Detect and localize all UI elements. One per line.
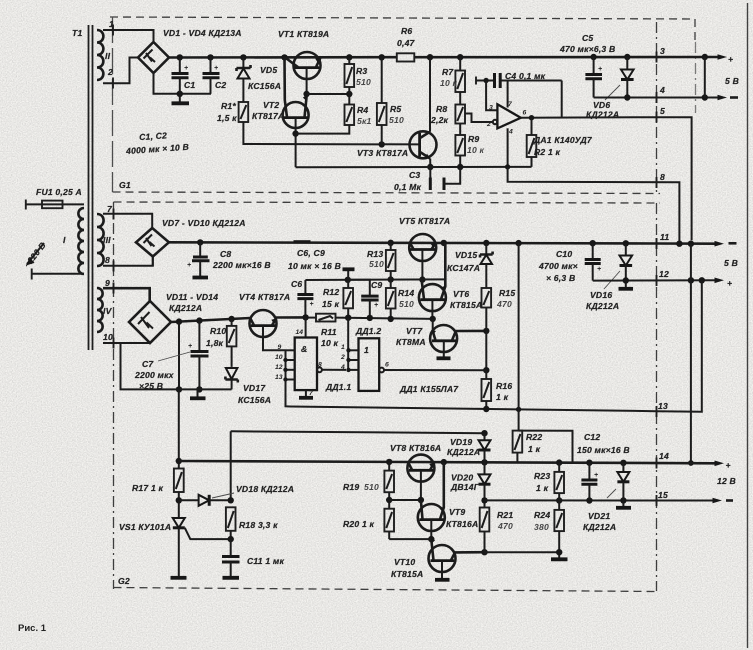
resistor R8 [430, 92, 465, 125]
wire drop from winding-10 wire to lower common [121, 343, 128, 389]
capacitor C7 [188, 321, 209, 390]
svg-text:× 6,3 В: × 6,3 В [546, 273, 575, 283]
DD1.2 input pins [340, 318, 359, 372]
svg-text:12: 12 [275, 364, 283, 371]
terminal 14 [657, 451, 669, 469]
node R2 top [529, 115, 534, 120]
wire vertical A term5 net [690, 244, 692, 463]
winding II [97, 30, 111, 80]
svg-text:КС156А: КС156А [238, 395, 271, 405]
leader C7 [158, 352, 190, 361]
box G1 top border [110, 17, 695, 19]
svg-text:10 к: 10 к [440, 78, 458, 88]
svg-text:470: 470 [496, 299, 512, 309]
svg-text:11: 11 [660, 232, 669, 242]
resistor R18 [226, 507, 278, 539]
svg-text:II: II [105, 51, 111, 61]
op-amp DA1 [486, 101, 527, 136]
chassis bar above C9 riser [343, 269, 355, 280]
svg-text:8: 8 [660, 172, 665, 182]
DD1.2 output pin6 [379, 362, 486, 373]
svg-text:Рис. 1: Рис. 1 [18, 623, 47, 634]
svg-text:С8: С8 [220, 249, 231, 259]
node R9 bottom [457, 164, 463, 170]
svg-text:VD11 - VD14: VD11 - VD14 [166, 292, 218, 302]
diode VD21 [616, 463, 631, 508]
wire middle rail y241 [169, 242, 657, 243]
resistor R5 [377, 57, 404, 144]
svg-text:R16: R16 [496, 381, 512, 391]
svg-text:VT2: VT2 [263, 100, 279, 110]
wire winding II bottom to bridge left [103, 58, 138, 84]
svg-text:С3: С3 [409, 170, 420, 180]
node C4 left / pin3 riser [483, 78, 488, 83]
svg-text:VD17: VD17 [243, 383, 266, 393]
node bus-R10 [228, 316, 234, 322]
capacitor C8 [187, 242, 210, 277]
svg-text:КТ817А: КТ817А [252, 111, 284, 121]
resistor R12 [322, 280, 353, 318]
svg-text:VD5: VD5 [260, 65, 277, 75]
node R15 bottom / VT7 [483, 328, 489, 334]
svg-text:2: 2 [107, 67, 113, 77]
wire R20 bottom to VT9 base [389, 538, 431, 540]
svg-text:+: + [374, 302, 378, 309]
svg-text:R15: R15 [499, 288, 515, 298]
node rail-VT1/VT2 collectors [281, 54, 287, 60]
ground below C1 [172, 94, 190, 104]
svg-text:14: 14 [659, 451, 669, 461]
node 14rail-R19 [386, 459, 392, 465]
resistor R13 [367, 243, 396, 280]
wire VT3 collector to rail [429, 57, 431, 132]
transistor VT4 [250, 310, 286, 350]
svg-text:С7: С7 [142, 359, 154, 369]
wire R8 tap to op-amp pin2 [465, 114, 493, 123]
wire R15 bottom to pin6 node [485, 331, 487, 370]
zener VD5 [237, 57, 251, 102]
node rail-R7 [457, 54, 463, 60]
node bus-C7 [196, 317, 202, 323]
output arrow 14 plus [715, 460, 731, 470]
ground bar below C7 wire [190, 389, 206, 398]
svg-text:R17 1 к: R17 1 к [132, 483, 164, 493]
svg-text:0,1 Мк: 0,1 Мк [394, 182, 421, 192]
transistor VT7 [430, 325, 486, 357]
svg-text:R18 3,3 к: R18 3,3 к [239, 520, 278, 530]
box G2 right border [656, 203, 658, 591]
svg-text:VT4 КТ817А: VT4 КТ817А [239, 292, 290, 302]
wire DD1 inputs to 13 net [286, 380, 291, 407]
node rail-C8 [197, 239, 203, 245]
svg-text:510: 510 [399, 299, 414, 309]
node 12line-VD16 [623, 277, 629, 283]
node R3 bottom [346, 91, 352, 97]
svg-text:470 мк×6,3 В: 470 мк×6,3 В [559, 44, 615, 54]
leader VD16 [604, 271, 620, 289]
svg-text:R11: R11 [321, 327, 337, 337]
leader VD21 [607, 489, 616, 498]
svg-text:R13: R13 [367, 249, 383, 259]
svg-text:+: + [214, 65, 218, 72]
svg-text:+: + [597, 266, 601, 273]
transistor VT3 [410, 131, 437, 158]
svg-text:15: 15 [658, 490, 668, 500]
resistor R10 [206, 319, 236, 367]
node 15line-VD20/R21 [481, 497, 487, 503]
transistor VT6 [419, 243, 446, 319]
wire winding II top to bridge [103, 30, 154, 42]
svg-text:5к1: 5к1 [357, 116, 372, 126]
wire vertical B 12-13 link [657, 280, 702, 411]
wire common bus y167 [296, 166, 532, 168]
wire VT3 emitter down [429, 158, 431, 167]
node common-C7 [196, 386, 202, 392]
ground below VT10 [435, 578, 450, 582]
node rail-VD16 [623, 240, 629, 246]
box G1 right border [656, 22, 658, 192]
svg-text:VT8 КТ816А: VT8 КТ816А [390, 443, 441, 453]
svg-text:III: III [103, 235, 111, 245]
svg-text:С11 1 мк: С11 1 мк [247, 556, 284, 566]
svg-text:T1: T1 [72, 28, 82, 38]
wire R17 net corner down [230, 431, 232, 500]
svg-text:1 к: 1 к [496, 392, 509, 402]
svg-text:R1*: R1* [221, 101, 236, 111]
resistor R17 [132, 461, 184, 501]
wire R17 net upper [231, 431, 485, 433]
DD1.1 input pins [275, 344, 295, 406]
svg-text:2200 мкх: 2200 мкх [134, 370, 175, 380]
svg-text:+: + [727, 278, 732, 288]
svg-text:R5: R5 [390, 104, 401, 114]
wire common bus y389 [127, 388, 232, 390]
svg-text:510: 510 [369, 259, 384, 269]
svg-text:R6: R6 [401, 26, 412, 36]
node VT1 base / R3 [303, 91, 309, 97]
resistor R11 [316, 314, 339, 348]
svg-text:2: 2 [486, 121, 491, 128]
resistor R7 [440, 57, 465, 92]
svg-text:9: 9 [278, 344, 282, 351]
terminal 9 [105, 278, 114, 294]
box G1 right corner stub [694, 19, 696, 42]
svg-text:КС156А: КС156А [248, 81, 281, 91]
svg-text:ДА1 К140УД7: ДА1 К140УД7 [533, 135, 593, 145]
wire VT1 base to R3 bottom [307, 93, 350, 95]
svg-text:КД212А: КД212А [447, 447, 480, 457]
output arrow 12 plus [715, 278, 733, 289]
node common-R17 drop [176, 386, 182, 392]
svg-text:R7: R7 [442, 67, 454, 77]
svg-text:+: + [726, 460, 731, 470]
svg-text:1: 1 [341, 344, 345, 351]
node rail-C10 [590, 240, 596, 246]
wire 14 rail [179, 461, 716, 463]
bridge rectifier VD7-VD10 [136, 228, 169, 257]
node R21 bottom [481, 549, 487, 555]
box G1 bottom border [113, 192, 661, 194]
leader VD18 [212, 493, 234, 498]
svg-text:14: 14 [296, 329, 304, 336]
node 14rail-VT9 emitter [441, 459, 447, 465]
node DD1 pin14 supply [302, 314, 308, 320]
box G2 left border [113, 202, 115, 589]
svg-text:+: + [594, 472, 598, 479]
terminal 7 [107, 204, 114, 220]
output arrow +5V [718, 54, 734, 64]
DD1.1 output pin8 [317, 362, 346, 373]
capacitor C3 [394, 167, 460, 192]
resistor R16 [482, 370, 513, 410]
node R18 bottom / gate [228, 536, 234, 542]
svg-text:R20 1 к: R20 1 к [343, 519, 375, 529]
svg-text:С1, С2: С1, С2 [139, 130, 168, 142]
label C1,C2 value [124, 129, 189, 156]
svg-text:510: 510 [364, 482, 379, 492]
svg-text:510: 510 [389, 115, 404, 125]
node rail-VD6 [624, 54, 630, 60]
wire minus bus 4 [594, 97, 719, 99]
diode VD20 [479, 462, 491, 507]
svg-text:VD15: VD15 [455, 250, 477, 260]
svg-text:13: 13 [658, 401, 668, 411]
node rail-term5 drop [688, 241, 694, 247]
svg-text:VS1 КУ101А: VS1 КУ101А [119, 522, 171, 532]
svg-text:1,5 к: 1,5 к [217, 113, 237, 123]
resistor R21 [480, 508, 514, 553]
node 14rail-C12 [586, 460, 592, 466]
svg-text:ДД1.2: ДД1.2 [355, 326, 381, 336]
node 14rail-VD21 [620, 460, 626, 466]
wire terminal8 line [508, 167, 680, 244]
DD1.1 ground pin7 [299, 390, 314, 398]
svg-text:10: 10 [275, 354, 283, 361]
capacitor C6 [291, 279, 314, 318]
svg-text:&: & [301, 344, 307, 354]
svg-text:VT1 КТ819А: VT1 КТ819А [278, 29, 329, 39]
svg-text:IV: IV [103, 306, 113, 316]
svg-text:+: + [188, 343, 192, 350]
node rail-VT3 collector [427, 54, 433, 60]
node 15line-C12 [586, 497, 592, 503]
svg-text:ДД1.1: ДД1.1 [325, 382, 351, 392]
transistor VT9 [418, 462, 445, 539]
terminal 12 [657, 269, 669, 286]
wire VT10 emitter bus to R24 [485, 551, 560, 553]
node R24 crossing [556, 549, 562, 555]
terminal 11 [657, 232, 670, 249]
wire main top rail right [414, 56, 719, 59]
resistor R22 [513, 431, 543, 462]
capacitor C5 [585, 57, 602, 98]
terminal 3 [657, 46, 666, 63]
node rail-VT6 collector [441, 240, 447, 246]
leader VD6 [605, 85, 620, 100]
node 14line-A [688, 460, 694, 466]
transformer T1 core [89, 25, 93, 350]
svg-text:R10: R10 [210, 326, 226, 336]
transistor VT1 [285, 52, 320, 94]
svg-text:VT6: VT6 [453, 289, 469, 299]
svg-text:С2: С2 [215, 80, 226, 90]
zener VD15 [480, 243, 493, 288]
wire drop to R17 section [178, 322, 180, 390]
logic DD1.1 [295, 329, 317, 390]
node DD1.2 out / R16 [483, 367, 489, 373]
resistor R15 [482, 288, 516, 331]
capacitor C12 [581, 463, 598, 501]
thyristor VS1 [173, 500, 231, 576]
node 14rail start [176, 458, 182, 464]
wire R1 bottom to base bus [243, 122, 419, 144]
svg-text:R9: R9 [468, 134, 479, 144]
zener VD17 [225, 368, 237, 389]
svg-text:С10: С10 [556, 249, 572, 259]
svg-text:6: 6 [523, 110, 527, 117]
svg-text:2: 2 [340, 354, 345, 361]
svg-text:+: + [598, 66, 602, 73]
svg-text:1,8к: 1,8к [206, 338, 224, 348]
node 14rail-VD19/VD20 [481, 459, 487, 465]
svg-text:R4: R4 [357, 105, 368, 115]
resistor R24 [534, 501, 564, 558]
resistor R3 [345, 57, 371, 94]
svg-text:12: 12 [659, 269, 669, 279]
svg-text:1: 1 [109, 19, 114, 29]
output arrow 11 minus [715, 241, 737, 247]
transistor VT2 [283, 57, 309, 167]
wire VT6 base down to VT7 [432, 319, 434, 331]
node pin4 on bus [505, 164, 510, 169]
svg-text:10 мк × 16 В: 10 мк × 16 В [288, 261, 341, 271]
node minus-VD6 [624, 94, 630, 100]
svg-text:КТ815А: КТ815А [450, 300, 482, 310]
ground below VT7 [437, 356, 451, 360]
svg-text:ДВ14Г: ДВ14Г [450, 482, 480, 492]
node rail-VD5 [240, 54, 246, 60]
terminal 13 [657, 401, 668, 417]
wire R17 drop continues to 14 rail [178, 389, 180, 460]
~220V arrow [22, 240, 48, 269]
terminal 5 [657, 106, 666, 123]
box G1 left border [112, 17, 114, 192]
svg-text:VD20: VD20 [451, 473, 473, 483]
resistor R2 [527, 118, 537, 167]
svg-text:С6, С9: С6, С9 [297, 248, 325, 258]
terminal 2 [107, 67, 113, 89]
wire main top rail left [169, 56, 397, 59]
svg-text:12 В: 12 В [717, 476, 736, 486]
node rail-C1 [177, 54, 183, 60]
node rail-R3 [346, 54, 352, 60]
node 12line-A [688, 277, 694, 283]
node VT5 base on R13 bus [419, 276, 425, 282]
svg-text:КД212А: КД212А [583, 522, 616, 532]
svg-text:КД212А: КД212А [169, 303, 202, 313]
svg-text:С9: С9 [371, 280, 382, 290]
svg-text:С1: С1 [184, 80, 195, 90]
wire winding III top to bridge2 top [103, 214, 152, 228]
node R5 bottom [379, 141, 385, 147]
wire C4 right drop to pin6 net [561, 81, 563, 118]
svg-text:FU1 0,25 А: FU1 0,25 А [36, 187, 82, 197]
svg-text:4: 4 [659, 85, 665, 95]
svg-text:1 к: 1 к [536, 483, 549, 493]
svg-text:150 мк×16 В: 150 мк×16 В [577, 445, 630, 455]
node R19-R20 junction [386, 497, 392, 503]
wire C4 node down to op-amp pin3 [486, 81, 497, 111]
bridge rectifier VD11-VD14 [129, 301, 171, 343]
wire 15 line [485, 499, 717, 501]
svg-text:0,47: 0,47 [397, 38, 416, 48]
svg-text:VT9: VT9 [449, 507, 465, 517]
svg-text:8: 8 [105, 255, 110, 265]
node rail-R5 [379, 54, 385, 60]
capacitor C1 [172, 57, 196, 93]
node 12line-B [699, 277, 705, 283]
svg-text:510: 510 [356, 77, 371, 87]
wire winding IV bottom to bridge3 bottom corner [103, 342, 150, 344]
svg-text:КС147А: КС147А [447, 263, 480, 273]
resistor R9 [455, 124, 484, 168]
node VT2 base / R4 [292, 130, 298, 136]
svg-text:+: + [728, 54, 733, 64]
svg-text:R19: R19 [343, 482, 359, 492]
wire raw bus through VT4 [276, 316, 306, 319]
svg-text:С6: С6 [291, 279, 302, 289]
node R17net-VD19 [481, 430, 487, 436]
wire R22 feed riser [518, 243, 520, 431]
wire logic supply bus y317 [305, 317, 316, 319]
svg-text:4: 4 [508, 129, 513, 136]
transistor VT10 [429, 539, 485, 578]
node C9 bottom [367, 315, 373, 321]
node 13net-R16 [483, 406, 489, 412]
node VT8 base [418, 497, 424, 503]
fuse FU1 [26, 200, 84, 210]
svg-text:2200 мк×16 В: 2200 мк×16 В [212, 260, 271, 270]
node rail-VD15 [483, 240, 489, 246]
svg-text:VD19: VD19 [450, 437, 472, 447]
transistor VT8 [407, 455, 434, 500]
wire y317 right part [336, 318, 434, 319]
svg-text:10 к: 10 к [467, 145, 485, 155]
svg-text:R8: R8 [436, 104, 447, 114]
node rail-term8 drop [676, 241, 682, 247]
output arrow 15 minus [713, 498, 734, 504]
svg-text:10: 10 [103, 332, 113, 342]
diode VD19 [479, 433, 491, 462]
node VT3 emitter on bus [427, 164, 433, 170]
wire terminal 12 line [593, 279, 716, 281]
node VT6 base [430, 316, 436, 322]
wire winding III bottom to bridge2 bottom [103, 255, 153, 266]
node rail-R22 feed [515, 240, 521, 246]
svg-text:VD1 - VD4 КД213А: VD1 - VD4 КД213А [163, 28, 242, 38]
svg-text:5: 5 [660, 106, 665, 116]
wire 13 net [290, 407, 657, 412]
wire raw 12V bus y317 [171, 318, 250, 322]
svg-text:G1: G1 [119, 180, 131, 190]
svg-text:VT7: VT7 [406, 326, 423, 336]
svg-text:R22: R22 [526, 432, 542, 442]
svg-text:КТ815А: КТ815А [391, 569, 423, 579]
resistor R23 [534, 463, 564, 501]
svg-text:8: 8 [318, 362, 322, 369]
transistor VT5 [409, 234, 436, 280]
node R17 bottom [176, 497, 182, 503]
